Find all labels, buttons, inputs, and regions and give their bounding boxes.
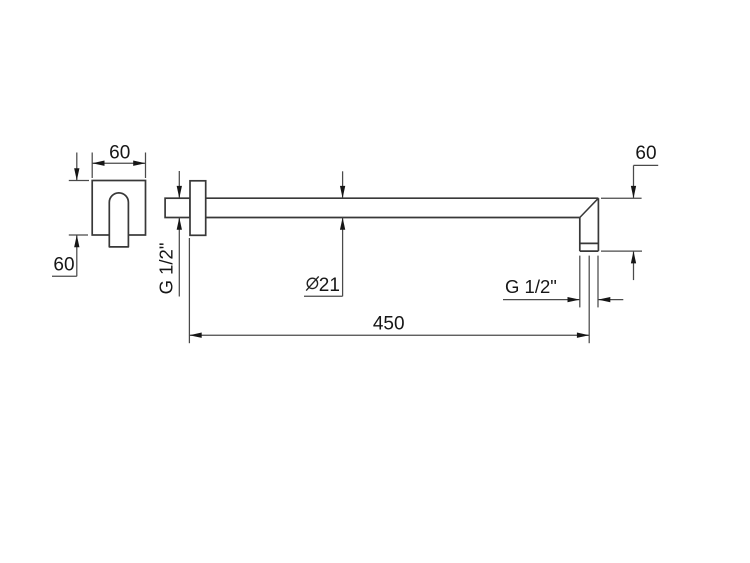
front view: square wall flange [92, 181, 145, 236]
dimension G 1/2 (inlet, vertical): lower arrow line [177, 218, 182, 297]
dimension G 1/2 (outlet) label [505, 276, 557, 297]
dimension 60 (outlet drop): upper arrow line [631, 165, 636, 198]
side view: horizontal arm tube bottom line [206, 217, 580, 219]
side view: outlet down-tube [580, 198, 599, 251]
dimension 60 (height, left of front view): extension ticks [69, 181, 89, 236]
svg-text:21: 21 [319, 275, 340, 296]
dimension 60 (height): upper arrow line [74, 153, 79, 181]
dimension 60 (width, top of front view): dimension line with arrows [92, 161, 145, 166]
dimension 60 (outlet drop) label [635, 143, 656, 164]
side view: threaded inlet stub [165, 198, 190, 217]
dimension G 1/2 (inlet) rotated label [156, 243, 177, 295]
svg-text:60: 60 [109, 143, 130, 164]
svg-text:G 1/2": G 1/2" [156, 243, 177, 295]
front view: U-shaped arm tube (hides flange bottom edge) [109, 193, 128, 247]
dimension 60 (height): lower arrow line and leader [52, 235, 79, 276]
dimension 60 (outlet drop): lower arrow line [631, 251, 636, 280]
dimension G 1/2 (outlet): left arrow line [503, 297, 580, 302]
dimension 60 (outlet drop, right): shelf line [634, 164, 659, 166]
dimension diameter 21 label [306, 275, 340, 296]
svg-text:G 1/2": G 1/2" [505, 276, 557, 297]
dimension G 1/2 (outlet): right arrow line [598, 297, 623, 302]
dimension diameter 21: lower arrow line with leader [304, 218, 345, 297]
dimension 60 (width) label [109, 143, 130, 164]
dimension diameter 21: upper arrow line [340, 171, 345, 198]
side view: horizontal arm tube top line [206, 197, 599, 199]
side view: wall flange [190, 181, 206, 236]
dimension 450 (overall length): dimension line with arrows [189, 333, 589, 338]
dimension 60 (height) label [53, 254, 74, 275]
svg-text:60: 60 [53, 254, 74, 275]
dimension 60 (width, top of front view): extension lines [92, 153, 145, 179]
side view: bend miter line [580, 198, 599, 217]
side view: outlet thread nipple [580, 243, 599, 251]
dimension 60 (outlet drop): extension lines [601, 198, 642, 251]
svg-text:60: 60 [635, 143, 656, 164]
dimension 450 label [373, 314, 405, 335]
dimension G 1/2 (inlet, vertical): upper arrow line [177, 171, 182, 198]
svg-text:450: 450 [373, 314, 405, 335]
dimension G 1/2 (outlet, horizontal): extension lines [580, 256, 598, 308]
dimension 450 (overall length): extension lines [189, 238, 589, 343]
